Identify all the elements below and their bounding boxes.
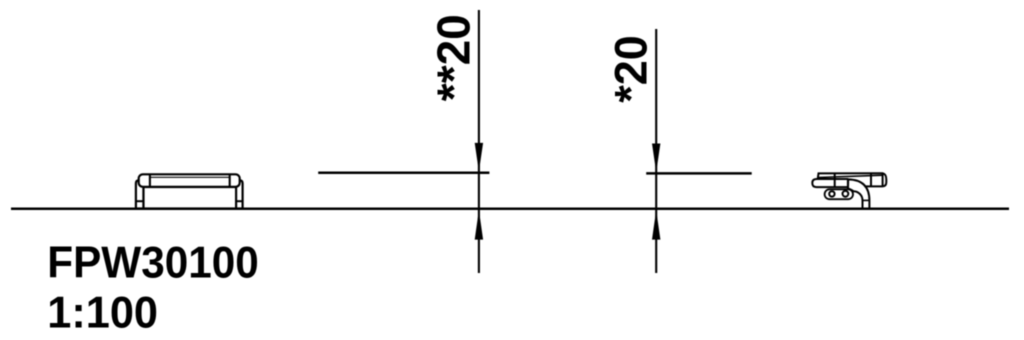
dimension **20: up arrow bbox=[475, 210, 483, 240]
svg-text:*20: *20 bbox=[606, 35, 657, 103]
bench side view: right leg bbox=[235, 180, 243, 208]
bench end view: leg joint line bbox=[863, 199, 870, 201]
dimension **20: down arrow bbox=[475, 143, 483, 172]
bench end view: plank second top line bbox=[818, 175, 883, 177]
dimension *20: extension vertical line bbox=[655, 29, 657, 273]
bench end view: left bolt bbox=[829, 191, 834, 196]
bench side view: plank right division line bbox=[229, 174, 231, 187]
bench side view: seat plank bbox=[139, 174, 240, 187]
ground line bbox=[11, 207, 1009, 210]
bench side view: left leg bbox=[136, 180, 144, 208]
bench side view: plank inner top line bbox=[150, 176, 230, 178]
bench end view: bolt bracket bbox=[825, 189, 853, 199]
bench side view: plank left division line bbox=[149, 174, 151, 187]
bench end view: right bolt bbox=[843, 191, 849, 197]
bench end view: leg tube bbox=[848, 179, 869, 208]
bench end view: plank division line 2 bbox=[870, 173, 872, 185]
dimension **20: extension vertical line bbox=[478, 10, 480, 273]
bench end view: side plank end bar bbox=[812, 179, 848, 187]
bench end view: plank division line 1 bbox=[834, 173, 836, 187]
svg-text:**20: **20 bbox=[428, 14, 480, 101]
svg-text:1:100: 1:100 bbox=[47, 288, 158, 338]
bench side view: right foot line bbox=[235, 200, 243, 202]
dimension *20: down arrow bbox=[652, 144, 660, 173]
bench end view: bar right end line bbox=[847, 179, 849, 188]
bench side view: body box bbox=[144, 187, 237, 209]
bench end view: plank end cap line bbox=[882, 173, 884, 186]
bench side view: left foot line bbox=[136, 200, 144, 202]
dimension *20: dimension line bbox=[646, 172, 752, 175]
bench end view: seat plank 3D bar bbox=[818, 173, 886, 186]
dimension **20: dimension line bbox=[318, 172, 489, 175]
dimension *20: up arrow bbox=[652, 210, 660, 240]
svg-text:FPW30100: FPW30100 bbox=[47, 239, 258, 288]
